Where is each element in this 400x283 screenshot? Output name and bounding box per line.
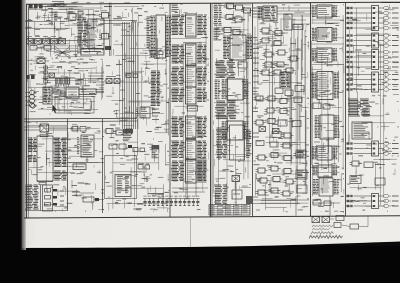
vertical bus 8 bbox=[123, 22, 138, 129]
gates y176-186 bbox=[258, 177, 296, 185]
wire mesh midleft low bbox=[107, 142, 169, 209]
bottom comps col4 bbox=[312, 200, 340, 206]
dense rows right mid bbox=[348, 99, 372, 116]
dark blob lower bbox=[246, 196, 252, 204]
label texture left low bbox=[26, 122, 104, 212]
small boxes row bbox=[109, 144, 132, 149]
IC U23 right bbox=[352, 122, 372, 139]
IC U10 bbox=[215, 79, 249, 100]
comp cluster bbox=[133, 148, 145, 152]
labels rows mid bbox=[253, 44, 259, 94]
handwritten RP30 5117MB bbox=[309, 235, 343, 238]
label texture col170 bbox=[172, 4, 209, 209]
vertical divider x252 bbox=[252, 3, 254, 217]
left frame vertical line bbox=[27, 4, 29, 218]
comps cluster bbox=[70, 125, 90, 131]
cluster right 175 bbox=[350, 176, 385, 186]
cursor arrow artifact bbox=[52, 105, 57, 113]
gates row y128-139 bbox=[104, 129, 133, 136]
page left edge shadow bbox=[20, 0, 26, 250]
gate grid upper bbox=[260, 28, 289, 46]
dense IC U2 bbox=[43, 87, 52, 104]
buffer unit rows 4 bbox=[347, 72, 399, 92]
col170 top labels bbox=[172, 4, 179, 11]
gate G2 bbox=[99, 34, 111, 40]
gates y166-176 bbox=[256, 166, 294, 174]
dip unit 4 bbox=[171, 87, 207, 104]
gate cluster bbox=[224, 15, 245, 23]
gate cluster 2 bbox=[222, 28, 243, 35]
wire mesh left mid bbox=[28, 61, 103, 113]
footer line bbox=[25, 210, 67, 212]
labels left top bbox=[253, 8, 258, 14]
buffer unit rows 1 bbox=[347, 6, 399, 31]
IC U22 bbox=[313, 178, 339, 196]
ground bbox=[55, 19, 58, 21]
label texture col210 bbox=[213, 3, 251, 212]
vertical wire pair bbox=[109, 3, 111, 57]
resistor row R1 bbox=[51, 2, 67, 7]
gates right bbox=[350, 161, 386, 168]
paper crease below border bbox=[190, 217, 192, 247]
page left edge line bbox=[23, 0, 25, 248]
sub border y162 left-mid bbox=[68, 162, 104, 164]
wide register box bbox=[79, 89, 96, 95]
crystal X1 bbox=[33, 57, 49, 64]
cluster y140-150 bbox=[256, 141, 293, 149]
stack footer bbox=[37, 182, 53, 185]
title area comps bbox=[334, 216, 368, 230]
signal table bbox=[209, 205, 250, 216]
capacitor row C10-C21 bbox=[143, 194, 200, 206]
small box pair below gates bbox=[30, 46, 51, 51]
wire mesh col252 bbox=[253, 10, 308, 211]
box lower bbox=[232, 190, 242, 199]
hatch bundle bbox=[52, 88, 66, 97]
sub divider x102 lower-left bbox=[102, 119, 104, 213]
label bbox=[104, 6, 112, 8]
gate G1 bbox=[99, 11, 111, 18]
comps above osc bbox=[126, 74, 138, 78]
dark cluster bbox=[152, 145, 160, 158]
IC U16 bbox=[312, 28, 338, 42]
dip unit 6 bbox=[171, 140, 207, 159]
IC U14 bbox=[280, 72, 290, 88]
wire mesh midleft bbox=[106, 7, 169, 137]
label texture midleft bbox=[106, 3, 169, 140]
box cluster bbox=[83, 197, 104, 202]
RC chain vertical bbox=[43, 64, 48, 84]
ground symbol bbox=[86, 157, 89, 161]
wire mesh left top bbox=[28, 6, 104, 58]
buffer unit rows 2 bbox=[347, 33, 399, 48]
labels below stack bbox=[152, 109, 160, 120]
IC U18 big bbox=[311, 72, 339, 100]
vertical divider x210 bbox=[211, 3, 213, 217]
IC U4 bbox=[77, 135, 94, 157]
IC U30 tall body bbox=[37, 136, 53, 181]
sub divider x67 lower-left bbox=[67, 119, 69, 211]
gates y152-163 bbox=[256, 152, 306, 161]
bus wires right mid bbox=[88, 73, 104, 85]
vertical weave wires bbox=[290, 15, 306, 185]
box lower bbox=[73, 164, 86, 170]
IC U15 bbox=[312, 5, 338, 18]
left pin col top bbox=[214, 4, 222, 40]
handwritten line 2 bbox=[311, 232, 333, 234]
IC U7 bbox=[115, 175, 131, 197]
wire mesh left low bbox=[26, 124, 104, 210]
dark blob bbox=[105, 46, 111, 50]
ground cluster bbox=[146, 176, 149, 181]
net label PULLUP bbox=[25, 21, 52, 22]
IC U1 bbox=[88, 19, 104, 49]
transistor Q5 bbox=[29, 104, 37, 108]
label texture right bbox=[346, 3, 399, 212]
part-number stamp row bbox=[29, 5, 56, 9]
bus turn cluster bbox=[123, 129, 133, 141]
IC U17 bbox=[312, 48, 338, 62]
comp cluster right bbox=[138, 165, 150, 170]
IC U19 bbox=[315, 115, 340, 139]
flat box bbox=[293, 25, 303, 30]
labels row bbox=[72, 192, 94, 196]
dip unit 1 bbox=[171, 14, 207, 37]
IC U11 bbox=[222, 121, 249, 140]
IC U3 bbox=[66, 87, 79, 98]
clusters right edge bbox=[296, 150, 307, 193]
IC U1 left pin column bbox=[77, 18, 88, 46]
pin rows 71-77 bbox=[216, 71, 236, 77]
boxes y88 bbox=[275, 86, 304, 96]
schematic outer top border bbox=[26, 2, 400, 4]
tall pin stack left upper bbox=[28, 138, 37, 152]
IC U20 bbox=[312, 146, 338, 160]
IC U13 top bbox=[253, 6, 310, 21]
gates mid1 bbox=[263, 50, 300, 67]
title area xbox pair bbox=[312, 217, 334, 223]
dip unit 7 dense bbox=[171, 158, 207, 183]
handwritten line 1 bbox=[312, 225, 333, 230]
wire crossing bundle bbox=[55, 47, 70, 59]
wire loop to title area bbox=[296, 196, 330, 216]
bus wires col4 bbox=[312, 20, 345, 65]
wire mesh col170 bbox=[172, 15, 207, 199]
net label row2 bbox=[25, 26, 70, 29]
vertical divider x345 bbox=[345, 3, 347, 216]
label texture left top bbox=[28, 2, 104, 60]
net label column bbox=[147, 17, 152, 48]
IC U21 bbox=[313, 165, 338, 177]
labels y107 bbox=[253, 108, 290, 114]
feedback loop rectangle bbox=[55, 97, 94, 114]
horizontal section divider left bbox=[24, 118, 137, 122]
diode pair bbox=[78, 11, 83, 21]
comps below CPU bbox=[150, 51, 163, 55]
xbox small bbox=[49, 73, 55, 78]
open box with comparators bbox=[43, 185, 58, 211]
comps mid bbox=[313, 103, 330, 109]
label col lower bbox=[214, 185, 227, 204]
vertical divider x170 bbox=[169, 3, 171, 217]
label texture left mid bbox=[26, 58, 104, 115]
cluster y130-140 bbox=[253, 132, 294, 139]
pin rows 101-119 bbox=[215, 101, 236, 119]
ladder IC bbox=[284, 14, 310, 30]
tall pin stack left lower bbox=[28, 156, 37, 162]
wire mesh col310 bbox=[311, 15, 344, 196]
pin list header bbox=[40, 132, 48, 137]
col170 bottom wires bbox=[172, 183, 208, 200]
bus lines right bbox=[96, 90, 104, 93]
label strip box bbox=[70, 49, 104, 56]
connector comb J1 bbox=[55, 78, 70, 87]
wire mesh col210 bbox=[213, 5, 251, 205]
gates y95-105 bbox=[254, 96, 303, 104]
transformer T1 bbox=[24, 122, 67, 132]
wires bottom bbox=[253, 200, 309, 204]
gates mid2 bbox=[260, 68, 296, 75]
gate chain row bbox=[26, 37, 66, 45]
capacitor C1 bbox=[54, 12, 58, 18]
label texture col252 bbox=[253, 5, 309, 212]
dense stack mid bbox=[151, 71, 161, 106]
dip unit 3 bbox=[171, 66, 207, 87]
dip header bbox=[185, 138, 196, 140]
transistor column Q1-Q4 bbox=[25, 90, 36, 107]
cluster y118-130 bbox=[254, 119, 302, 127]
label texture col310 bbox=[311, 3, 344, 212]
and gates row bbox=[224, 4, 253, 14]
label texture midleft low bbox=[105, 141, 169, 212]
component block bbox=[68, 12, 80, 20]
tall open IC U12 bbox=[216, 125, 252, 160]
buffer unit rows 6 bbox=[347, 194, 399, 209]
dip unit 5 bbox=[171, 116, 207, 138]
stamp row 2 bbox=[26, 75, 35, 79]
schematic bottom border bbox=[24, 216, 400, 218]
vertical divider x310 bbox=[310, 3, 312, 217]
vertical stub x137 bbox=[137, 119, 139, 156]
oscillator cluster bbox=[104, 77, 124, 84]
wire vertical bbox=[51, 8, 53, 26]
dip unit 2 bbox=[171, 44, 207, 65]
IC U9 with pins bbox=[223, 35, 252, 60]
connector between bbox=[185, 106, 198, 112]
xbox small bbox=[232, 176, 240, 207]
feedback loop big bbox=[105, 156, 137, 199]
IC U6 with pins bbox=[136, 107, 151, 118]
buffer unit rows 5 bbox=[347, 141, 399, 156]
tall pin stack right bbox=[54, 138, 68, 180]
wire mesh right bbox=[348, 8, 400, 205]
pin rows below bbox=[215, 61, 247, 69]
xboxes y124-136 bbox=[259, 127, 279, 134]
clock wires bbox=[100, 19, 137, 25]
gates y188-198 bbox=[256, 188, 293, 196]
buffer unit rows 3 bbox=[347, 50, 399, 70]
pin stack D lower bbox=[25, 185, 41, 211]
dash marks bbox=[60, 191, 64, 205]
CPU IC U5 bbox=[150, 15, 171, 58]
